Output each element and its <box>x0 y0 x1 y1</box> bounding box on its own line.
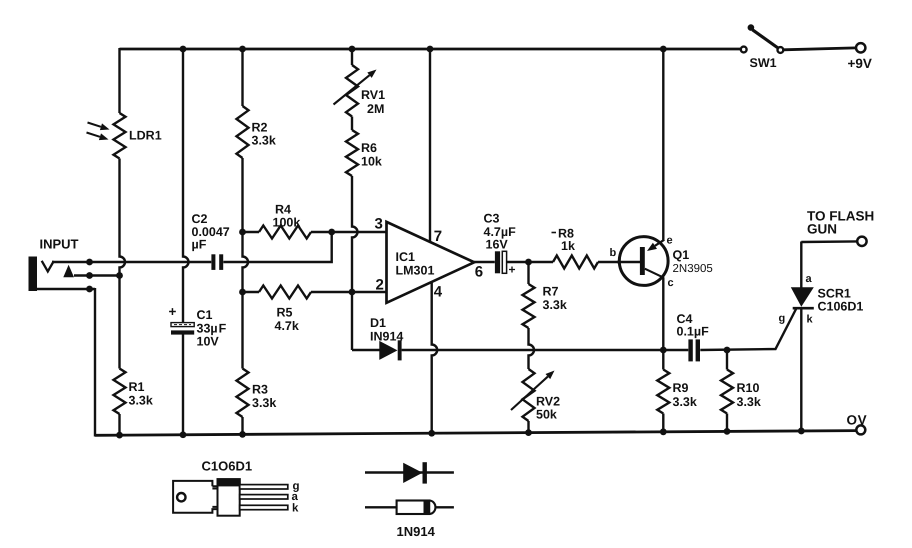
svg-text:IC1: IC1 <box>396 250 416 264</box>
resistor R3 <box>237 369 277 418</box>
svg-text:GUN: GUN <box>807 222 837 237</box>
terminal TO FLASH GUN <box>801 209 874 247</box>
svg-text:+: + <box>169 304 177 319</box>
svg-text:C106D1: C106D1 <box>818 300 864 314</box>
thyristor SCR1 C106D1 <box>779 273 864 326</box>
svg-text:3.3k: 3.3k <box>543 298 567 312</box>
resistor R10 <box>721 370 761 414</box>
wire IC1 output line <box>474 261 495 263</box>
wire R10 leads <box>726 350 728 431</box>
terminal OV <box>847 413 868 435</box>
junction node top rail / R2 branch <box>239 46 246 53</box>
svg-text:10V: 10V <box>197 335 220 349</box>
svg-text:OV: OV <box>847 413 868 428</box>
wire C3 to Q1 base <box>507 261 641 263</box>
svg-text:3: 3 <box>375 216 383 233</box>
wire input signal line (jack tip to pin 3 corner) <box>52 232 332 262</box>
junction node R2/R4 (pin3 divider) <box>239 229 246 236</box>
svg-text:LDR1: LDR1 <box>129 129 162 143</box>
1N914 package drawing <box>365 501 454 540</box>
svg-text:SW1: SW1 <box>750 56 777 70</box>
potentiometer RV2 <box>511 369 560 422</box>
capacitor C2 <box>192 212 230 270</box>
svg-text:4.7k: 4.7k <box>275 319 299 333</box>
resistor R6 <box>346 130 382 176</box>
capacitor C4 <box>677 312 710 361</box>
C106D1 package drawing <box>173 459 299 516</box>
svg-text:3.3k: 3.3k <box>252 396 276 410</box>
svg-text:Q1: Q1 <box>673 248 690 262</box>
transistor Q1 2N3905 <box>610 235 713 290</box>
svg-text:b: b <box>610 247 617 259</box>
potentiometer RV1 <box>334 65 386 117</box>
junction node C3 / R7 <box>525 259 532 266</box>
1N914 diode symbol drawing <box>365 462 454 483</box>
svg-text:R9: R9 <box>673 381 689 395</box>
resistor R9 <box>657 370 697 414</box>
svg-text:R10: R10 <box>737 381 760 395</box>
junction node R9 / 0V rail <box>660 428 667 435</box>
svg-text:RV1: RV1 <box>361 88 385 102</box>
junction node top rail / RV1 branch <box>349 46 356 53</box>
svg-text:LM301: LM301 <box>396 264 435 278</box>
capacitor C3 (electrolytic) <box>484 212 517 277</box>
junction node C1 / 0V rail <box>180 431 187 438</box>
svg-text:C1O6D1: C1O6D1 <box>202 459 253 474</box>
junction node top rail / Q1 emitter branch <box>660 46 667 53</box>
svg-text:16V: 16V <box>486 238 509 252</box>
svg-text:RV2: RV2 <box>536 395 560 409</box>
resistor R1 <box>114 369 153 415</box>
svg-text:2N3905: 2N3905 <box>673 263 713 275</box>
wire RV1 branch <box>352 49 358 350</box>
svg-text:1N914: 1N914 <box>397 524 436 539</box>
resistor R8 <box>552 227 599 269</box>
wire R9 leads <box>662 350 664 432</box>
svg-text:a: a <box>292 491 299 503</box>
svg-text:R2: R2 <box>252 121 268 135</box>
svg-text:R1: R1 <box>129 380 145 394</box>
junction node pin4 / 0V rail <box>428 430 435 437</box>
svg-text:R3: R3 <box>252 383 268 397</box>
op-amp IC1 LM301 <box>375 216 484 303</box>
svg-text:2: 2 <box>376 277 384 294</box>
wire pin 7 supply branch <box>429 49 431 242</box>
svg-text:k: k <box>292 503 299 515</box>
wire SCR anode branch <box>800 242 802 289</box>
svg-text:c: c <box>668 277 674 289</box>
svg-text:6: 6 <box>475 264 483 281</box>
wire Q1 emitter branch <box>662 49 664 241</box>
svg-text:2M: 2M <box>367 102 384 116</box>
junction node C4/R10 <box>724 347 731 354</box>
photoresistor LDR1 <box>87 113 162 159</box>
svg-text:3.3k: 3.3k <box>673 395 697 409</box>
svg-text:R6: R6 <box>361 141 377 155</box>
svg-text:10k: 10k <box>361 155 382 169</box>
junction node collector/R9/C4 <box>660 347 667 354</box>
svg-text:4: 4 <box>434 284 443 301</box>
svg-text:3.3k: 3.3k <box>129 394 153 408</box>
junction node top rail / C1 branch <box>180 46 187 53</box>
capacitor C1 (electrolytic) <box>169 304 227 349</box>
svg-text:C3: C3 <box>484 212 500 226</box>
junction node R10 / 0V rail <box>724 428 731 435</box>
wire +9V top rail <box>120 48 856 50</box>
svg-text:+9V: +9V <box>848 56 872 71</box>
svg-text:SCR1: SCR1 <box>818 287 851 301</box>
wire pin 4 branch <box>432 282 438 433</box>
terminal +9V <box>848 43 872 71</box>
svg-text:0.1µF: 0.1µF <box>677 325 710 339</box>
resistor R2 <box>237 106 276 158</box>
wire LDR1 branch <box>120 48 126 435</box>
svg-text:D1: D1 <box>370 316 386 330</box>
svg-text:33µ F: 33µ F <box>197 322 227 336</box>
svg-text:R4: R4 <box>275 203 291 217</box>
wire Q1 collector branch <box>662 278 664 351</box>
junction node RV2 / 0V rail <box>525 429 532 436</box>
wire pin 2 line <box>243 291 387 293</box>
junction node R4 / input corner <box>328 229 335 236</box>
svg-text:a: a <box>806 273 813 285</box>
wire 0V rail <box>95 431 856 436</box>
junction node top rail / pin7 branch <box>427 46 434 53</box>
svg-text:3.3k: 3.3k <box>737 395 761 409</box>
svg-text:IN914: IN914 <box>370 329 403 343</box>
junction node R3 / 0V rail <box>239 431 246 438</box>
switch SW1 <box>741 24 784 70</box>
wire R7-RV2 branch <box>529 262 535 433</box>
svg-text:+: + <box>509 263 516 277</box>
svg-text:50k: 50k <box>536 408 557 422</box>
junction node SCR / 0V rail <box>798 428 805 435</box>
svg-text:7: 7 <box>434 228 442 245</box>
junction node R2/R5 (pin2 divider) <box>239 289 246 296</box>
svg-text:R7: R7 <box>543 285 559 299</box>
svg-text:100k: 100k <box>273 216 301 230</box>
svg-text:INPUT: INPUT <box>40 237 79 252</box>
wire R2 branch <box>243 49 249 434</box>
wire C1 branch <box>183 49 189 435</box>
svg-text:1k: 1k <box>561 239 575 253</box>
junction node pin2 / D1 branch <box>349 289 356 296</box>
wire SCR cathode branch <box>800 308 802 431</box>
resistor R7 <box>523 284 567 328</box>
junction node R1 / 0V rail <box>116 432 123 439</box>
svg-text:R5: R5 <box>277 306 293 320</box>
svg-text:3.3k: 3.3k <box>252 134 276 148</box>
svg-text:k: k <box>807 314 814 326</box>
resistor R5 <box>259 286 311 334</box>
wire D1 to SCR gate line <box>402 308 797 351</box>
connector INPUT jack <box>29 237 123 437</box>
svg-text:C1: C1 <box>197 308 213 322</box>
wire pin 3 line <box>243 231 387 233</box>
diode D1 1N914 <box>352 316 403 360</box>
svg-text:e: e <box>667 235 673 247</box>
svg-text:µF: µF <box>192 238 207 252</box>
svg-text:g: g <box>779 313 786 325</box>
resistor R4 <box>259 203 311 239</box>
